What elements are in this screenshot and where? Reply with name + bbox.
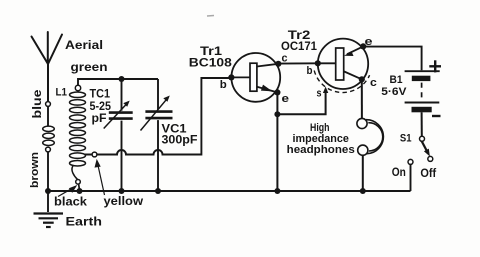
svg-text:TC1: TC1 xyxy=(90,88,111,100)
svg-text:Aerial: Aerial xyxy=(65,38,103,52)
svg-text:Tr1: Tr1 xyxy=(200,46,223,58)
svg-text:S1: S1 xyxy=(400,132,412,144)
svg-text:Earth: Earth xyxy=(66,214,103,228)
wire switch On terminal to rail xyxy=(410,164,412,191)
antenna Aerial xyxy=(32,32,63,102)
terminal brown xyxy=(46,147,51,152)
wire green rail xyxy=(78,79,158,85)
terminal blue xyxy=(46,102,51,107)
svg-text:On: On xyxy=(392,165,406,179)
svg-text:5-25: 5-25 xyxy=(90,101,112,113)
junction TC1 top xyxy=(119,76,125,82)
wire battery − to switch xyxy=(421,112,423,136)
svg-text:B1: B1 xyxy=(390,74,403,86)
wire L1 tap stub xyxy=(85,154,93,156)
terminal yellow (L1 tap) xyxy=(92,152,97,157)
headphones xyxy=(357,118,383,155)
wire bottom rail xyxy=(48,190,411,192)
coil L1 aerial winding xyxy=(43,126,55,145)
coil L1 tuning winding xyxy=(70,91,86,180)
svg-text:BC108: BC108 xyxy=(189,58,233,70)
junction emitter / shield link xyxy=(274,111,280,117)
junction Tr1 collector pin c xyxy=(275,61,281,67)
transistor Tr2 xyxy=(314,39,369,93)
svg-text:brown: brown xyxy=(29,152,41,188)
junction Tr2 base pin b xyxy=(315,60,321,66)
junction VC1 bottom / rail xyxy=(155,188,161,194)
svg-text:Tr2: Tr2 xyxy=(288,30,311,42)
transistor Tr1 xyxy=(231,53,280,102)
svg-text:black: black xyxy=(54,196,88,208)
junction Tr1 emitter pin e xyxy=(274,89,280,95)
wire brown terminal to rail xyxy=(47,152,49,191)
svg-text:300pF: 300pF xyxy=(162,135,198,147)
wire shield link to Tr2 s xyxy=(277,91,325,114)
terminal black (L1 bottom) xyxy=(76,180,81,185)
battery B1 xyxy=(405,71,440,112)
junction Tr1 emitter / rail xyxy=(274,188,280,194)
wire yellow tap to Tr1 base (hops over TC1 and VC1 wires) xyxy=(97,78,231,155)
label + xyxy=(429,60,441,72)
svg-text:blue: blue xyxy=(32,90,44,119)
wire Tr2 emitter to battery + xyxy=(363,47,421,71)
capacitor VC1 xyxy=(141,79,173,191)
junction Tr1 base pin b xyxy=(228,74,234,80)
junction Tr2 collector pin c xyxy=(359,76,365,82)
junction black / rail xyxy=(77,188,83,194)
svg-text:yellow: yellow xyxy=(104,196,144,208)
label − xyxy=(432,115,441,117)
svg-text:e: e xyxy=(282,93,290,105)
junction aerial / earth rail xyxy=(45,188,51,194)
svg-text:pF: pF xyxy=(92,113,107,125)
switch S1 xyxy=(408,136,433,164)
junction TC1 bottom / rail xyxy=(119,188,125,194)
wire Tr2 collector to headphones xyxy=(361,79,363,118)
junction headphones / rail xyxy=(360,188,366,194)
wire black terminal to rail xyxy=(78,184,81,190)
svg-text:Off: Off xyxy=(420,166,437,180)
junction Tr2 emitter pin e xyxy=(360,43,366,49)
wire Tr1 collector to Tr2 base xyxy=(278,62,318,64)
ground Earth xyxy=(34,214,64,228)
wire Tr1 emitter to rail xyxy=(276,92,278,191)
capacitor TC1 xyxy=(104,79,133,191)
svg-text:c: c xyxy=(370,77,377,89)
svg-text:5·6V: 5·6V xyxy=(381,86,407,98)
svg-text:green: green xyxy=(71,60,108,74)
svg-text:s: s xyxy=(317,88,322,100)
svg-text:L1: L1 xyxy=(56,86,68,98)
svg-text:b: b xyxy=(307,65,313,77)
svg-text:b: b xyxy=(220,79,227,91)
pointer to black terminal xyxy=(58,186,76,196)
svg-text:OC171: OC171 xyxy=(281,41,318,53)
pointer to yellow terminal xyxy=(95,161,104,195)
terminal green (L1 top) xyxy=(75,85,80,90)
wire blue terminal to aerial coil xyxy=(47,106,49,126)
wire headphones to rail xyxy=(362,155,364,191)
arrowhead at Tr2 shield xyxy=(323,87,328,94)
svg-text:headphones: headphones xyxy=(287,144,355,156)
wire rail to earth xyxy=(47,191,49,212)
svg-text:High: High xyxy=(310,122,330,134)
